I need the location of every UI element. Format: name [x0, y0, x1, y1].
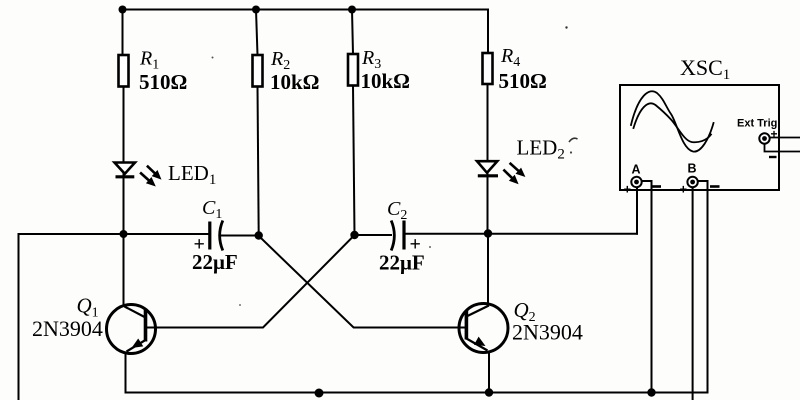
svg-text:2N3904: 2N3904	[32, 316, 103, 341]
svg-text:2N3904: 2N3904	[512, 320, 583, 345]
wire C2 to collector node and scope	[406, 233, 638, 235]
node top-left junction	[119, 6, 127, 14]
svg-text:510Ω: 510Ω	[499, 69, 547, 93]
node Q2 collector junction	[484, 229, 492, 237]
svg-text:A: A	[632, 163, 641, 177]
svg-text:B: B	[688, 162, 697, 176]
svg-text:10kΩ: 10kΩ	[270, 70, 320, 94]
wire Q1 emitter	[125, 353, 127, 393]
node C2 left junction	[350, 231, 358, 239]
wire R1 column upper	[122, 10, 124, 56]
wire bottom rail	[126, 392, 708, 394]
wire scope B minus down	[698, 181, 708, 393]
wire R2 column upper	[256, 10, 258, 56]
svg-text:+: +	[624, 182, 632, 197]
svg-text:22μF: 22μF	[379, 251, 425, 275]
resistor R3	[348, 54, 358, 86]
wire Q2 collector	[487, 234, 489, 306]
scan speck 5	[429, 246, 431, 248]
terminal Ext Trig	[759, 133, 769, 143]
wire scope B plus down	[692, 188, 694, 400]
node Q2 emitter junction	[485, 388, 493, 396]
wire R4 to LED2	[487, 84, 489, 176]
resistor R1	[119, 55, 129, 87]
scan speck 1	[569, 138, 578, 142]
LED1 arrow 1	[147, 166, 162, 180]
scan speck 4	[212, 57, 214, 59]
capacitor C1	[210, 221, 223, 251]
scope waveform trace 1	[631, 91, 714, 151]
oscilloscope XSC1 box	[620, 85, 779, 190]
label A minus	[653, 185, 662, 188]
node C1 right junction	[255, 231, 263, 239]
resistor R2	[253, 55, 263, 87]
wire scope A plus to collector node	[636, 188, 638, 234]
capacitor C2	[391, 221, 404, 251]
LED1 arrow 2	[140, 173, 156, 187]
scan speck 3	[565, 26, 567, 28]
svg-text:22μF: 22μF	[192, 250, 238, 274]
terminal B	[687, 177, 697, 187]
LED2 arrow 2	[503, 170, 518, 185]
wire node to C1	[124, 233, 209, 235]
wire top rail	[123, 9, 489, 11]
wire Ext Trig plus out	[770, 137, 800, 139]
svg-text:510Ω: 510Ω	[139, 70, 187, 94]
node top R2 junction	[252, 6, 260, 14]
wire LED2 to node	[487, 173, 489, 234]
scan speck 6	[239, 304, 241, 306]
wire R4 column upper	[487, 10, 489, 54]
wire Q2 emitter	[488, 352, 490, 393]
scan speck 2	[570, 151, 572, 153]
wire Q1 collector	[123, 234, 125, 306]
transistor Q1	[107, 305, 156, 354]
wire scope A minus down	[642, 181, 652, 393]
node scope A- junction	[647, 388, 655, 396]
LED LED1	[115, 163, 136, 177]
wire R3 to C2 node	[353, 86, 355, 236]
wire left branch horizontal	[19, 233, 124, 235]
svg-text:XSC1: XSC1	[680, 55, 730, 83]
wire Ext Trig minus out	[765, 144, 800, 152]
wire R3 column upper	[352, 10, 353, 55]
wire R1 to LED1	[123, 87, 125, 178]
svg-text:+: +	[680, 182, 688, 197]
wire C2 node left	[355, 234, 392, 236]
wire LED1 to node	[123, 174, 125, 234]
wire R2 to C1 node	[258, 87, 259, 236]
wire C1 to node	[222, 235, 259, 237]
label B minus	[710, 185, 720, 188]
svg-text:10kΩ: 10kΩ	[361, 69, 411, 93]
label Ext Trig minus	[769, 156, 777, 158]
LED LED2	[477, 161, 498, 176]
svg-text:+: +	[771, 127, 778, 141]
wire left branch vertical	[18, 234, 20, 400]
node bottom mid junction	[315, 389, 324, 398]
transistor Q2	[459, 304, 508, 353]
resistor R4	[483, 53, 493, 84]
LED2 arrow 1	[510, 163, 526, 177]
scope waveform trace 2	[634, 103, 712, 142]
terminal A	[631, 177, 641, 187]
node top R3 junction	[348, 6, 356, 14]
node Q1 collector junction	[120, 230, 128, 238]
wire cross-coupling C2 to Q1 base	[147, 235, 355, 327]
wire cross-coupling C1 to Q2 base	[259, 236, 466, 328]
